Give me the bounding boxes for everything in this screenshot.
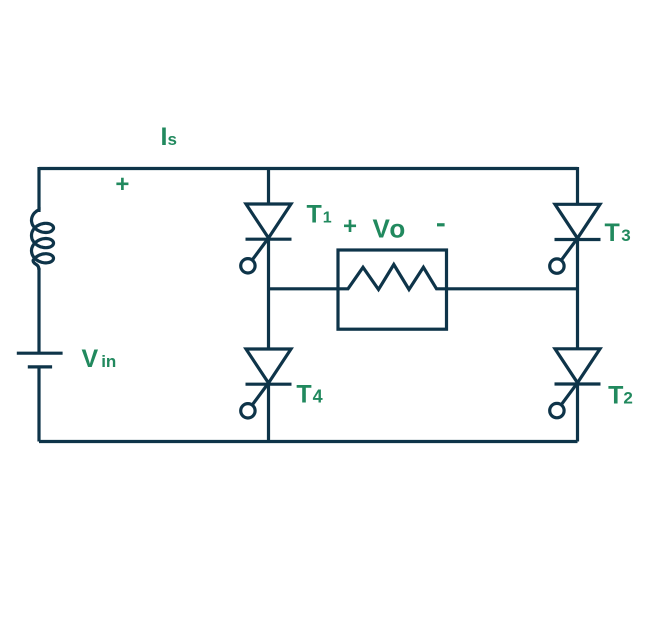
wire T3 cathode to node B [576, 238, 579, 348]
wire T1 cathode to node A [267, 238, 270, 349]
wire top [39, 167, 578, 170]
battery Vin plates [17, 353, 63, 367]
svg-text:+: + [115, 171, 129, 198]
wire load to node B [447, 287, 578, 290]
wire T4 cathode to bottom [267, 383, 270, 442]
wire right upper anode T3 [576, 167, 579, 204]
svg-text:Vin: Vin [82, 345, 117, 373]
resistor R load [338, 265, 447, 290]
wire node A to load [269, 287, 339, 290]
thyristor T4 [241, 349, 292, 418]
svg-text:Is: Is [161, 123, 177, 151]
svg-text:+: + [343, 213, 357, 240]
inductor Ls [32, 210, 54, 270]
thyristor T1 [241, 204, 292, 273]
load box [338, 250, 447, 329]
wire left mid [37, 268, 40, 353]
svg-text:Vo: Vo [373, 214, 406, 244]
thyristor T3 [550, 204, 601, 273]
svg-text:T1: T1 [307, 201, 332, 229]
wire T2 cathode to bottom [576, 383, 579, 442]
svg-text:T4: T4 [296, 381, 322, 409]
svg-text:T2: T2 [608, 382, 633, 410]
wire left upper [37, 167, 40, 212]
wire middle branch anode T1 [267, 167, 270, 204]
svg-text:T3: T3 [605, 219, 631, 247]
wire left lower [37, 367, 40, 442]
wire bottom [39, 440, 578, 443]
thyristor T2 [550, 349, 601, 418]
label minus Vo [437, 223, 445, 226]
